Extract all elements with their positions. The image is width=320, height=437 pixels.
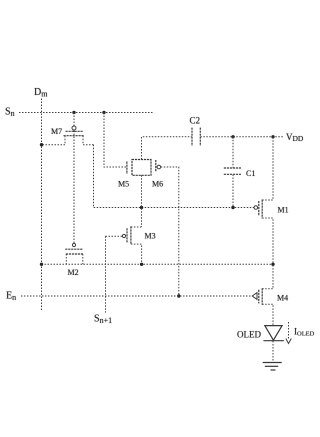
capacitor C1 [224,137,242,208]
wire box top to C2 left plate [142,137,192,160]
transistor M4 [252,264,273,325]
wire M6 gate to En [161,167,179,296]
ground symbol [263,363,282,371]
capacitor C2 [192,128,200,146]
junction dot Dm / node N2 [40,263,43,266]
svg-text:M1: M1 [278,206,289,215]
junction dot Dm / M7 source [40,143,43,146]
transistor M2 [65,243,83,264]
scan line Sn (horizontal wire) [19,112,153,114]
svg-text:Sn+1: Sn+1 [94,314,112,326]
data line Dm (vertical wire) [41,99,43,312]
wire Sn branch to M5 gate [104,113,127,168]
svg-text:M7: M7 [51,127,62,136]
transistor M6 gate bubble [157,165,161,169]
svg-text:Sn: Sn [5,107,15,119]
junction dot M3 bottom / node N2 [140,263,143,266]
junction dot node N1 / C1 bottom [231,206,234,209]
wire C2 to VDD [200,136,284,138]
svg-text:M4: M4 [277,294,288,303]
junction dot VDD line / C1 top [231,135,234,138]
wire M7 drain down and node line N1 to M1 gate [94,145,255,208]
svg-text:Dm: Dm [34,87,48,99]
node line N2 (horizontal wire) [42,263,274,265]
transistor M6 gate bar [155,160,157,172]
transistor M3 [106,226,142,264]
wire OLED cathode to ground [272,341,274,362]
svg-text:VDD: VDD [286,132,304,143]
transistor M5 gate bar [126,162,128,175]
svg-text:M2: M2 [68,268,79,277]
svg-text:C2: C2 [190,116,201,126]
OLED diode [263,326,284,341]
svg-text:IOLED: IOLED [294,327,315,338]
svg-text:M6: M6 [152,180,163,189]
svg-text:M5: M5 [118,180,129,189]
transistor pair M5/M6 shared channel box [132,160,151,176]
transistor M7 [42,126,94,145]
transistor M1 [254,137,273,264]
junction dot Sn / M7-M2 gate line [72,111,75,114]
wire box bottom to M3 top leg [141,175,143,227]
svg-text:C1: C1 [246,169,255,178]
wire Sn to M7 and M2 gates (vertical) [73,113,75,244]
svg-text:En: En [6,291,16,303]
junction dot node N1 / M5-M6 center [140,206,143,209]
svg-text:OLED: OLED [237,330,261,340]
junction dot node N2 / M1-M4 path [271,263,274,266]
junction dot Sn / M5 gate branch [102,111,105,114]
junction dot En / M6 gate [177,294,180,297]
current arrow I_OLED [286,322,292,344]
emission line En (horizontal wire) [21,295,254,297]
scan line Sn+1 (vertical wire) [105,236,107,312]
junction dot VDD line / M1 source [271,135,274,138]
svg-text:M3: M3 [145,232,156,241]
